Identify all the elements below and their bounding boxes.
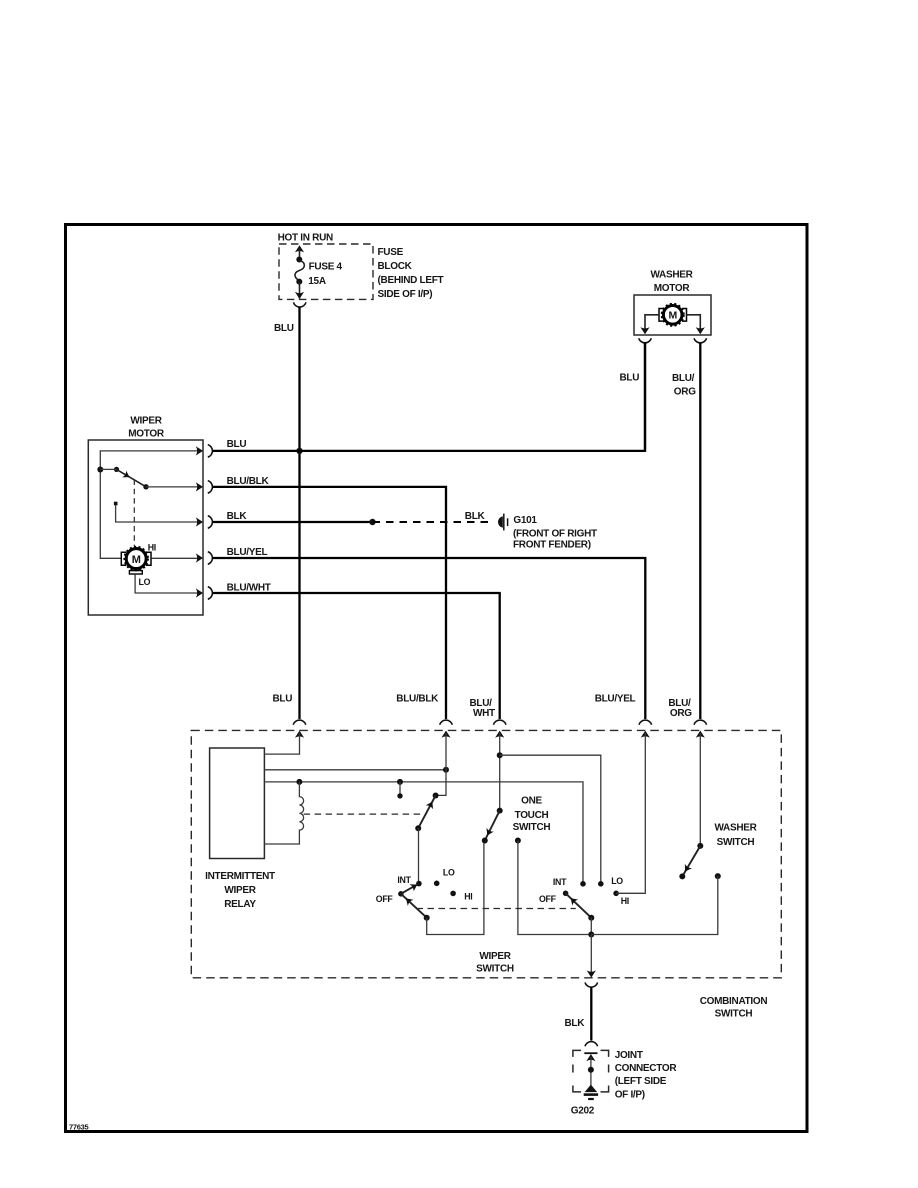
washer switch fixed contact dot — [715, 873, 721, 879]
wire BLU run — [213, 343, 645, 451]
relay arm contact dot — [415, 825, 421, 831]
svg-text:BLK: BLK — [465, 511, 486, 522]
splice dot BLK — [369, 519, 375, 525]
connector BLU at combination switch — [293, 720, 306, 725]
label HI (left pole) — [464, 892, 472, 902]
label G101 (FRONT OF RIGHT FRONT FENDER) — [513, 515, 597, 551]
ground G202 symbol — [584, 1085, 598, 1099]
washer motor brush brackets — [659, 309, 687, 322]
washer motor box — [634, 295, 711, 335]
label FUSE BLOCK (BEHIND LEFT SIDE OF I/P) — [378, 247, 444, 300]
wire park switch to pin 2 — [146, 486, 201, 488]
wire one touch fixed to common — [518, 841, 591, 935]
svg-text:BLK: BLK — [565, 1018, 586, 1029]
arrow into joint connector — [586, 1054, 595, 1061]
wiper motor park arm contact dot — [143, 484, 148, 489]
arrow fuse output — [295, 292, 304, 299]
label WIPER SWITCH — [476, 951, 514, 975]
svg-text:BLU/BLK: BLU/BLK — [396, 694, 439, 705]
label BLU/ORG (comb sw) — [668, 698, 692, 719]
svg-text:SWITCH: SWITCH — [513, 822, 551, 833]
wire BLU/ORG washer motor down — [699, 343, 701, 719]
svg-text:77635: 77635 — [69, 1123, 88, 1132]
arrow wiper motor pin 1 — [196, 446, 203, 455]
svg-text:OFF: OFF — [376, 894, 394, 904]
svg-text:LO: LO — [611, 876, 623, 886]
wiper switch left arm OFF-pivot — [401, 894, 427, 918]
contact dot HI left — [450, 891, 456, 897]
connector washer motor right — [694, 338, 707, 343]
wire common to output — [590, 935, 592, 974]
wiper motor brush brackets — [121, 552, 151, 565]
svg-text:M: M — [668, 310, 677, 322]
wire BLU/BLK run — [213, 487, 446, 719]
wire washer fixed to common — [591, 876, 718, 934]
label BLU (wiper pin 1) — [227, 439, 247, 450]
svg-text:TOUCH: TOUCH — [515, 810, 549, 821]
washer motor M symbol — [662, 304, 684, 326]
wire BLK dashed to G101 — [373, 521, 495, 523]
one touch arm bottom dot — [482, 838, 488, 844]
washer switch arm dot — [679, 873, 685, 879]
arrow output of combination switch — [587, 970, 596, 977]
svg-text:RELAY: RELAY — [224, 899, 256, 910]
svg-text:MOTOR: MOTOR — [654, 283, 691, 294]
junction dot joint connector — [588, 1067, 594, 1073]
arrow BLU/WHT into combination switch — [495, 731, 504, 738]
connector wiper motor pin 2 — [208, 481, 213, 494]
arrow BLU into combination switch — [295, 731, 304, 738]
label WASHER SWITCH — [714, 823, 757, 848]
arrow washer motor pin right — [696, 327, 705, 334]
svg-text:BLU: BLU — [273, 694, 293, 705]
svg-text:INT: INT — [553, 877, 567, 887]
arrow BLU/YEL into combination switch — [641, 731, 650, 738]
washer switch arm — [682, 846, 701, 877]
label G202 — [571, 1106, 595, 1117]
svg-text:ORG: ORG — [674, 386, 696, 397]
svg-text:CONNECTOR: CONNECTOR — [615, 1063, 678, 1074]
label INT (right pole) — [553, 877, 567, 887]
one touch fixed contact dot — [515, 838, 521, 844]
label BLU (washer motor) — [620, 372, 640, 383]
label LO (right pole) — [611, 876, 623, 886]
label OFF (right pole) — [539, 894, 557, 904]
svg-text:OF I/P): OF I/P) — [615, 1089, 645, 1100]
combination switch outline — [191, 730, 781, 977]
arrow wiper motor pin 5 — [196, 588, 203, 597]
relay fixed contact dot — [397, 793, 402, 798]
one touch arm top dot — [497, 808, 503, 814]
intermittent wiper relay box — [210, 748, 265, 859]
wire BLU/WHT to LO contact — [500, 755, 601, 884]
wire BLU/YEL into switch — [616, 733, 645, 893]
relay fixed contact stub — [399, 782, 401, 796]
one touch switch arm — [484, 811, 500, 841]
label BLU/YEL (comb sw) — [595, 694, 636, 705]
arrow wiper motor pin 3 — [196, 517, 203, 526]
label BLU (comb sw) — [273, 694, 293, 705]
svg-text:BLU/: BLU/ — [672, 373, 695, 384]
wire BLU/WHT run — [213, 593, 500, 719]
contact dot LO right — [598, 881, 604, 887]
svg-text:WHT: WHT — [473, 708, 495, 719]
svg-text:(FRONT OF RIGHT: (FRONT OF RIGHT — [513, 528, 597, 539]
svg-text:SWITCH: SWITCH — [717, 837, 755, 848]
wiper switch left arm OFF-INT — [401, 881, 419, 894]
connector BLU/WHT at combination switch — [493, 720, 506, 725]
label JOINT CONNECTOR (LEFT SIDE OF I/P) — [615, 1050, 678, 1100]
junction dot BLU/BLK at relay line — [443, 767, 449, 773]
contact dot OFF left — [398, 891, 404, 897]
relay switch arm — [418, 796, 436, 829]
washer switch top dot — [697, 843, 703, 849]
wire relay contact feed — [264, 782, 583, 884]
connector BLU/BLK at combination switch — [440, 720, 453, 725]
joint connector terminal bar — [584, 1052, 597, 1054]
junction dot relay fixed contact stub — [397, 779, 403, 785]
svg-text:BLU/YEL: BLU/YEL — [227, 547, 268, 558]
svg-text:BLK: BLK — [227, 511, 248, 522]
wire BLU/ORG into switch — [699, 733, 701, 846]
wire BLU/WHT into switch — [499, 733, 501, 811]
svg-text:(BEHIND LEFT: (BEHIND LEFT — [378, 275, 444, 286]
label 15A — [308, 276, 326, 287]
svg-text:HI: HI — [621, 896, 629, 906]
wire relay arm to INT contact — [418, 828, 420, 883]
wire relay to BLU/BLK node — [264, 769, 446, 771]
label OFF (left pole) — [376, 894, 394, 904]
power feed arrow into HOT IN RUN — [295, 245, 304, 252]
label INTERMITTENT WIPER RELAY — [205, 871, 275, 910]
contact dot OFF right — [563, 891, 569, 897]
relay coil — [264, 782, 303, 844]
wire fuse to block edge — [299, 282, 301, 299]
label BLU (fuse output wire) — [274, 323, 294, 334]
connector BLU/YEL at combination switch — [639, 720, 652, 725]
connector wiper motor pin 3 — [208, 516, 213, 529]
wire BLU/YEL run — [213, 558, 646, 719]
arrow washer motor pin left — [640, 327, 649, 334]
label WIPER MOTOR — [128, 415, 165, 439]
svg-text:INTERMITTENT: INTERMITTENT — [205, 871, 275, 882]
label FUSE 4 — [309, 262, 343, 273]
svg-text:BLU: BLU — [227, 439, 247, 450]
svg-text:LO: LO — [443, 868, 455, 878]
joint connector outline — [573, 1050, 609, 1092]
label HOT IN RUN — [278, 233, 333, 244]
svg-text:BLU: BLU — [620, 372, 640, 383]
svg-text:15A: 15A — [308, 276, 326, 287]
svg-text:JOINT: JOINT — [615, 1050, 643, 1061]
svg-text:COMBINATION: COMBINATION — [700, 996, 768, 1007]
relay mechanical link — [304, 813, 423, 815]
arrow wiper motor pin 2 — [196, 482, 203, 491]
wire BLK to joint connector — [590, 987, 592, 1040]
svg-text:MOTOR: MOTOR — [128, 428, 165, 439]
svg-text:SWITCH: SWITCH — [476, 964, 514, 975]
wiper motor ground terminal — [114, 502, 118, 506]
contact dot INT right — [580, 881, 586, 887]
svg-text:(LEFT SIDE: (LEFT SIDE — [615, 1076, 667, 1087]
label BLU/WHT (wiper pin 5) — [227, 583, 271, 594]
junction dot common output — [588, 932, 594, 938]
svg-text:INT: INT — [397, 875, 411, 885]
label COMBINATION SWITCH — [700, 996, 768, 1020]
label BLU/ORG (washer motor) — [672, 373, 696, 398]
svg-text:BLU/YEL: BLU/YEL — [595, 694, 636, 705]
label LO (wiper motor) — [139, 577, 151, 587]
wire right pivot to common — [590, 918, 592, 935]
fuse block outline — [279, 244, 373, 299]
junction dot coil tap — [296, 779, 302, 785]
svg-text:FUSE: FUSE — [378, 247, 404, 258]
fuse F4 element — [295, 261, 304, 281]
wiper motor park switch arm — [117, 469, 147, 486]
drawing number 77635 — [69, 1123, 88, 1132]
border frame — [66, 225, 808, 1132]
svg-text:M: M — [132, 554, 141, 566]
junction dot BLU/WHT — [497, 752, 503, 758]
svg-text:WIPER: WIPER — [130, 415, 162, 426]
svg-text:BLU/BLK: BLU/BLK — [227, 476, 270, 487]
relay arm pivot dot — [433, 793, 439, 799]
label ONE TOUCH SWITCH — [513, 796, 551, 833]
label BLU/WHT (comb sw) — [470, 698, 496, 719]
wiper motor commutator base — [129, 571, 142, 574]
contact dot INT left — [416, 881, 422, 887]
connector wiper motor pin 1 — [208, 445, 213, 458]
wire BLU washer motor down — [644, 343, 646, 451]
wire wiper motor LO to pin 5 — [135, 574, 201, 593]
label INT (left pole) — [397, 875, 411, 885]
connector at joint connector — [585, 1042, 598, 1047]
svg-text:ONE: ONE — [521, 796, 542, 807]
washer motor lead right — [687, 315, 701, 329]
arrow BLU/BLK into combination switch — [441, 731, 450, 738]
label BLK (ground wire) — [565, 1018, 586, 1029]
wiper motor mechanical link — [133, 480, 135, 547]
label BLK (at G101) — [465, 511, 486, 522]
connector wiper motor pin 5 — [208, 587, 213, 600]
wiper switch mechanical link — [417, 908, 576, 910]
svg-text:WASHER: WASHER — [650, 269, 693, 280]
wiper switch right pivot dot — [588, 915, 594, 921]
svg-text:WIPER: WIPER — [224, 885, 256, 896]
label BLK (wiper pin 3) — [227, 511, 248, 522]
label HI (wiper motor) — [148, 543, 156, 553]
connector washer motor left — [639, 338, 652, 343]
connector at combination switch output — [585, 983, 598, 988]
wire ground terminal to pin 3 — [116, 505, 201, 522]
svg-text:FRONT FENDER): FRONT FENDER) — [513, 540, 591, 551]
ground G101 symbol — [498, 514, 508, 531]
fuse F4 top terminal dot — [296, 257, 302, 263]
label LO (left pole) — [443, 868, 455, 878]
svg-text:HI: HI — [464, 892, 472, 902]
fuse F4 bottom terminal dot — [296, 279, 302, 285]
wire inside joint connector — [590, 1057, 592, 1086]
svg-text:LO: LO — [139, 577, 151, 587]
arrow BLU/ORG into combination switch — [696, 731, 705, 738]
label BLU/BLK (wiper pin 2) — [227, 476, 270, 487]
wiper motor internal bus wire — [100, 451, 203, 558]
label WASHER MOTOR — [650, 269, 693, 294]
label BLU/YEL (wiper pin 4) — [227, 547, 268, 558]
svg-text:SIDE OF I/P): SIDE OF I/P) — [378, 289, 433, 300]
wire left pole common — [427, 841, 484, 935]
wire BLU/BLK to relay arm — [437, 733, 446, 795]
connector wiper motor pin 4 — [208, 552, 213, 565]
svg-text:BLOCK: BLOCK — [378, 261, 413, 272]
svg-text:G101: G101 — [513, 515, 537, 526]
svg-text:SWITCH: SWITCH — [715, 1009, 753, 1020]
wire hot feed to fuse — [299, 249, 301, 260]
wiper motor M symbol — [124, 547, 148, 571]
connector at fuse block output — [293, 302, 306, 307]
wiper switch left pivot dot — [424, 915, 430, 921]
svg-text:G202: G202 — [571, 1106, 595, 1117]
wiper motor box — [88, 440, 203, 615]
arrow wiper motor pin 4 — [196, 553, 203, 562]
svg-text:FUSE 4: FUSE 4 — [309, 262, 343, 273]
svg-text:HI: HI — [148, 543, 156, 553]
svg-text:ORG: ORG — [670, 708, 692, 719]
contact dot HI right — [613, 891, 619, 897]
wiper motor park switch contact dots — [97, 467, 119, 473]
wire BLU into relay — [264, 733, 299, 754]
wiper switch right arm — [566, 893, 592, 918]
wire BLU fuse to combination switch — [298, 307, 300, 719]
label HI (right pole) — [621, 896, 629, 906]
washer motor lead left — [645, 315, 659, 329]
junction dot BLU at wiper motor feed — [296, 448, 302, 454]
contact dot LO left — [434, 881, 440, 887]
connector BLU/ORG at combination switch — [694, 720, 707, 725]
svg-text:OFF: OFF — [539, 894, 557, 904]
svg-text:BLU: BLU — [274, 323, 294, 334]
svg-text:WASHER: WASHER — [714, 823, 757, 834]
wire BLK run to splice — [213, 521, 373, 523]
label BLU/BLK (comb sw) — [396, 694, 439, 705]
svg-text:HOT IN RUN: HOT IN RUN — [278, 233, 333, 244]
svg-text:WIPER: WIPER — [479, 951, 511, 962]
wire wiper motor HI to pin 4 — [151, 557, 201, 559]
